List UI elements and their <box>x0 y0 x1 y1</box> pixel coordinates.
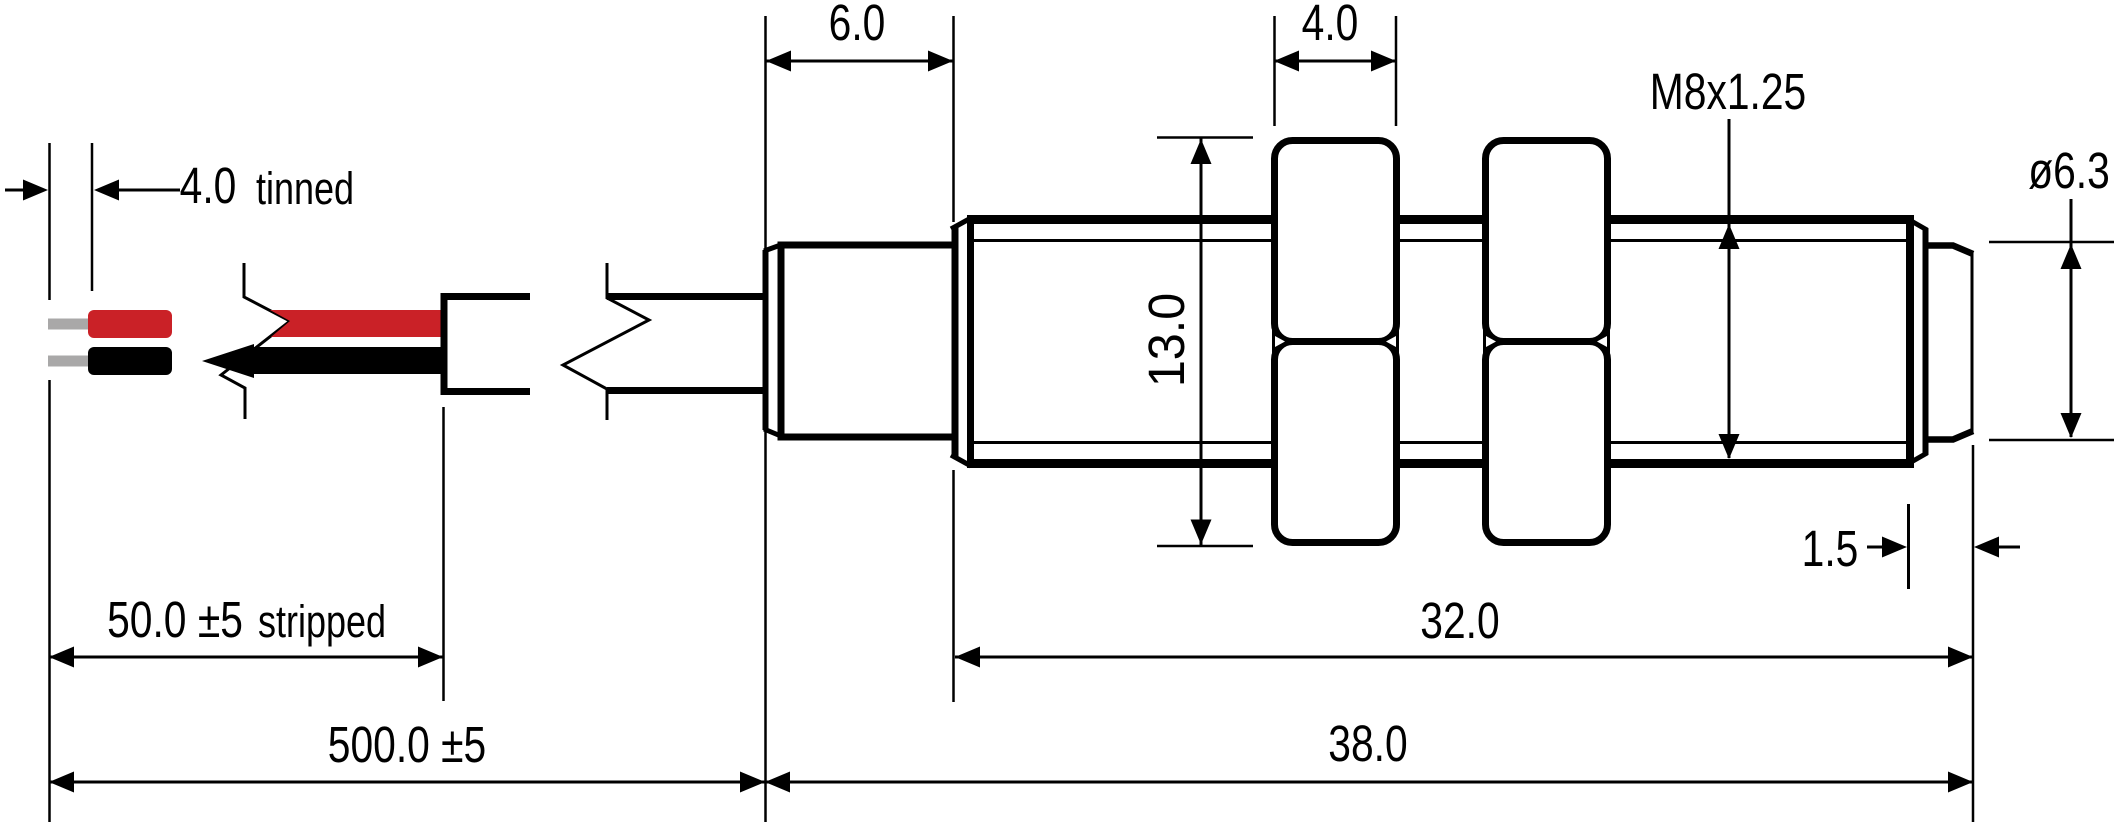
svg-text:M8x1.25: M8x1.25 <box>1650 63 1806 120</box>
dimension 6.3 ticks <box>1989 241 2114 244</box>
label 13.0 <box>1138 293 1195 387</box>
label 6.3 <box>2028 142 2110 199</box>
extension lines nut width <box>1273 16 1276 126</box>
label 32.0 <box>1420 592 1499 649</box>
svg-text:32.0: 32.0 <box>1420 592 1499 649</box>
dimension 13.0 ticks <box>1157 136 1253 139</box>
extension line cable end <box>48 143 51 300</box>
label M8x1.25 <box>1650 63 1806 120</box>
svg-text:500.0 ±5: 500.0 ±5 <box>328 716 486 773</box>
svg-text:stripped: stripped <box>258 596 386 647</box>
black wire <box>202 344 444 378</box>
sensing tip <box>1925 246 1973 255</box>
dimension line 500.0 <box>49 781 765 784</box>
cable outline <box>607 293 766 300</box>
thread major outline <box>967 215 1908 224</box>
svg-text:38.0: 38.0 <box>1328 715 1407 772</box>
label 38.0 <box>1328 715 1407 772</box>
label 6.0 <box>829 0 886 51</box>
break symbol cable <box>563 263 649 420</box>
svg-text:ø6.3: ø6.3 <box>2028 142 2110 199</box>
tinned tip of black wire <box>48 356 90 367</box>
hex nut 2 <box>1486 141 1608 342</box>
label 50.0 stripped <box>107 591 243 648</box>
dimension line 32.0 <box>955 656 1973 659</box>
dimension line 13.0 <box>1200 138 1203 547</box>
svg-text:50.0 ±5: 50.0 ±5 <box>107 591 243 648</box>
dimension line 6.3 <box>2070 199 2073 437</box>
thread right end face <box>1906 215 1914 468</box>
rear cap <box>781 245 952 437</box>
svg-text:1.5: 1.5 <box>1802 520 1859 577</box>
svg-text:4.0: 4.0 <box>1302 0 1359 51</box>
svg-text:6.0: 6.0 <box>829 0 886 51</box>
extension line sensor rear <box>764 16 767 822</box>
extension line jacket end <box>442 407 445 701</box>
cable jacket cut end <box>444 297 530 392</box>
red wire stripped end <box>88 310 172 338</box>
label 4.0 tinned <box>180 157 237 214</box>
dimension 4.0 tinned arrows <box>5 189 25 192</box>
svg-text:tinned: tinned <box>256 163 354 214</box>
svg-text:4.0: 4.0 <box>180 157 237 214</box>
svg-text:13.0: 13.0 <box>1138 293 1195 387</box>
dimension 1.5 <box>1907 504 1910 589</box>
dimension line 38.0 <box>765 781 1973 784</box>
label 1.5 <box>1802 520 1859 577</box>
dimension line 4.0 nut <box>1274 60 1396 63</box>
thread left end face <box>952 227 959 457</box>
dimension line M8 <box>1728 119 1731 458</box>
extension line thread start <box>952 16 955 222</box>
hex nut 1 <box>1275 141 1397 342</box>
thread minor lines <box>973 239 1906 242</box>
red wire <box>270 310 444 337</box>
break symbol wires <box>221 263 290 419</box>
dimension line 6.0 <box>766 60 953 63</box>
tinned tip of red wire <box>48 319 90 330</box>
extension line tinned end <box>91 143 94 291</box>
label 4.0 nut <box>1302 0 1359 51</box>
label 500.0 <box>328 716 486 773</box>
dimension line 50.0 <box>49 656 443 659</box>
extension line tip end <box>1972 445 1975 822</box>
black wire stripped end <box>88 347 172 375</box>
